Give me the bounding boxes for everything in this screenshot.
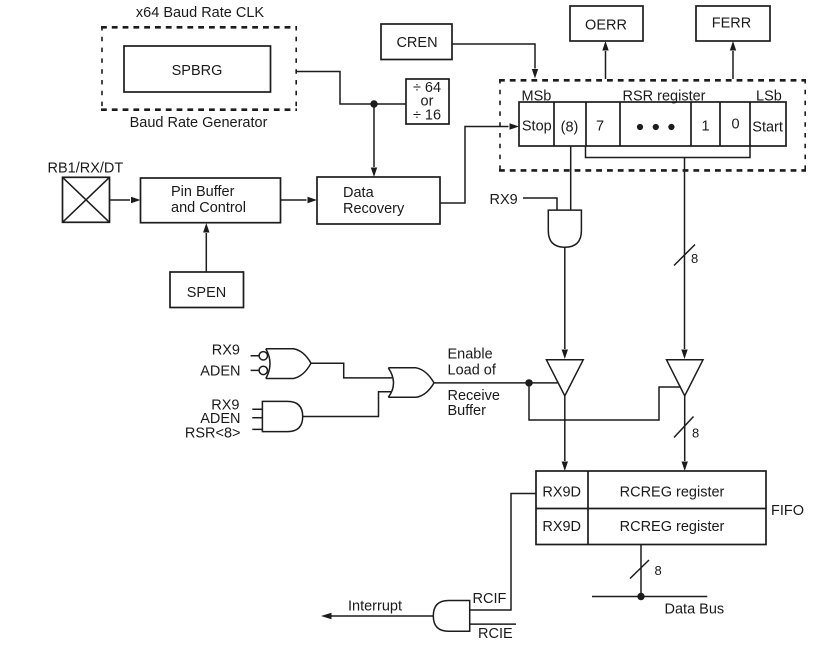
wire OR output to left tristate [434, 382, 558, 384]
RSR register cell row [519, 102, 786, 146]
svg-text:ADEN: ADEN [200, 364, 240, 380]
FIFO register block [536, 471, 766, 545]
register OERR [570, 6, 643, 41]
svg-text:Receive: Receive [448, 388, 500, 404]
block Data Recovery [317, 177, 440, 224]
svg-text:Pin Buffer: Pin Buffer [171, 184, 235, 200]
xnor gate body [266, 349, 311, 379]
divider block ÷64 or ÷16 [406, 79, 449, 124]
wire right tristate to FIFO (arrow down) [682, 396, 688, 471]
svg-text:Interrupt: Interrupt [348, 599, 402, 615]
bus bracket under RSR bits 7..0 [586, 146, 751, 158]
svg-text:FERR: FERR [712, 16, 751, 32]
wire SPEN to pin buffer (arrow up) [203, 223, 209, 272]
register FERR [696, 6, 770, 41]
wire RCIE stub [470, 623, 516, 625]
svg-text:0: 0 [731, 117, 739, 133]
svg-text:FIFO: FIFO [771, 503, 804, 519]
wire pin to pin buffer (arrow right) [110, 197, 141, 203]
svg-text:Stop: Stop [522, 119, 552, 135]
and3 gate input stubs [252, 409, 262, 429]
node data bus junction [637, 593, 644, 600]
svg-text:CREN: CREN [396, 35, 437, 51]
wire RSR box to FERR (arrow up) [730, 41, 736, 79]
wire and3 to OR [303, 392, 392, 417]
tristate buffer left [546, 360, 583, 396]
svg-text:RB1/RX/DT: RB1/RX/DT [48, 161, 124, 177]
xnor gate input stubs [251, 356, 259, 371]
svg-text:x64 Baud Rate CLK: x64 Baud Rate CLK [136, 5, 264, 21]
svg-text:Load of: Load of [448, 363, 497, 379]
block Pin Buffer and Control [141, 178, 281, 223]
RSR register dashed box [499, 79, 806, 172]
svg-text:7: 7 [596, 119, 604, 135]
wire AND to left tristate (arrow down) [562, 247, 568, 359]
svg-text:Buffer: Buffer [448, 403, 487, 419]
svg-text:Data: Data [343, 185, 375, 201]
wire RSR (8) to AND gate [570, 146, 572, 210]
svg-text:Recovery: Recovery [343, 201, 405, 217]
wire xnor to OR [311, 363, 392, 378]
svg-text:8: 8 [692, 426, 699, 441]
wire CREN to RSR box (arrow down) [452, 44, 538, 79]
svg-text:Enable: Enable [448, 347, 493, 363]
svg-text:RX9D: RX9D [542, 485, 581, 501]
wire junction to data recovery (arrow down) [371, 104, 377, 177]
baud rate generator dashed box [101, 26, 297, 111]
wire baud clock to divider [297, 72, 406, 105]
wire pin buffer to data recovery (arrow right) [281, 197, 318, 203]
svg-text:÷ 16: ÷ 16 [413, 108, 441, 124]
xnor gate input bubbles [259, 352, 267, 360]
svg-text:8: 8 [655, 563, 662, 578]
pin RB1/RX/DT [63, 177, 110, 222]
svg-text:RCIE: RCIE [478, 626, 513, 642]
svg-text:1: 1 [701, 119, 709, 135]
svg-text:(8): (8) [561, 120, 579, 136]
svg-text:SPEN: SPEN [187, 285, 227, 301]
cell dots [637, 124, 675, 130]
wire left tristate to FIFO (arrow down) [562, 396, 568, 471]
node junction baud clock [370, 100, 377, 107]
data bus line [592, 596, 707, 598]
tristate buffer right [667, 360, 704, 396]
bus slash 8 (RSR output) [674, 245, 695, 266]
and gate U2 (address detect) [262, 401, 302, 431]
svg-text:RX9D: RX9D [542, 519, 581, 535]
svg-text:RCREG register: RCREG register [620, 519, 725, 535]
svg-text:RCREG register: RCREG register [620, 485, 725, 501]
bus slash 8 (tristate output) [674, 417, 694, 438]
svg-text:8: 8 [691, 251, 698, 266]
bus slash 8 (data bus) [630, 560, 649, 579]
svg-text:Baud Rate Generator: Baud Rate Generator [130, 115, 268, 131]
register SPBRG [124, 46, 271, 92]
svg-text:RSR<8>: RSR<8> [185, 426, 241, 442]
wire RSR bus to right tristate (arrow down) [681, 158, 687, 360]
svg-text:Data Bus: Data Bus [665, 602, 725, 618]
wire data recovery to RSR Stop (arrow right) [440, 123, 519, 203]
svg-text:and Control: and Control [171, 200, 246, 216]
register SPEN [170, 272, 244, 308]
wire RSR box to OERR (arrow up) [602, 41, 608, 79]
wire RX9 to AND gate [523, 198, 557, 210]
svg-text:RCIF: RCIF [473, 591, 507, 607]
and gate U1 (ninth bit, vertical) [548, 210, 581, 247]
svg-text:Start: Start [752, 120, 783, 136]
svg-text:RX9: RX9 [490, 192, 518, 208]
wire RX9D to RCIF gate [470, 494, 536, 611]
svg-text:OERR: OERR [585, 18, 627, 34]
register CREN [381, 24, 452, 60]
node enable junction [525, 379, 532, 386]
or gate U3 (enable load) [388, 368, 434, 398]
wire enable to right tristate [529, 383, 681, 420]
wire interrupt (arrow left) [321, 613, 433, 619]
wire FIFO to data bus [640, 545, 642, 597]
svg-text:SPBRG: SPBRG [172, 63, 223, 79]
svg-text:RX9: RX9 [212, 343, 240, 359]
and gate U4 (interrupt, left pointing) [433, 601, 469, 632]
